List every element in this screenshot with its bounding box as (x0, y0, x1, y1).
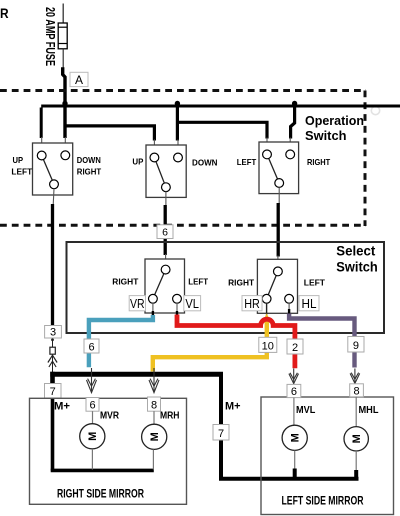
svg-text:MVR: MVR (100, 411, 120, 422)
wire motor MVR to bus (91, 449, 93, 470)
svg-text:VL: VL (185, 296, 199, 311)
wire terminal6 to motor MVR (92, 411, 94, 424)
wire yellow HR to MRH (net 10) (153, 317, 267, 372)
svg-text:7: 7 (50, 386, 56, 398)
down arrow into left 8 (350, 369, 360, 384)
svg-text:9: 9 (353, 340, 359, 352)
svg-text:LEFT: LEFT (11, 167, 32, 177)
label Select Switch (336, 242, 378, 274)
svg-text:LEFT: LEFT (188, 276, 208, 286)
svg-text:M: M (149, 432, 161, 441)
node 7 box right (45, 384, 62, 399)
wire SW1 bottom to connector 3 (52, 189, 55, 205)
node 2 box (287, 339, 303, 354)
switch SW1 (up/left - down/right) (33, 143, 73, 195)
svg-text:Switch: Switch (336, 258, 378, 274)
yellow arrow up into HR (262, 313, 271, 323)
wire terminal8 to motor MHL (355, 397, 357, 427)
node 3 box (45, 326, 62, 339)
svg-text:8: 8 (151, 399, 157, 411)
select switch SSW2 (horizontal motors) (257, 259, 297, 313)
select switch SSW1 (vertical motors) (145, 259, 185, 313)
svg-text:M: M (351, 434, 363, 443)
wire main vertical down to SW1 down-right contact (63, 106, 66, 138)
svg-text:3: 3 (50, 327, 56, 339)
node 6 box (operation to select) (157, 225, 173, 239)
svg-text:HL: HL (302, 296, 317, 311)
wire branch y=122 to SW3 left contact (177, 122, 267, 138)
junction dot bus x=177 (175, 101, 180, 106)
svg-text:6: 6 (291, 386, 297, 398)
terminal 6 box right (86, 398, 99, 412)
svg-text:DOWN: DOWN (192, 158, 218, 168)
switch SW3 (left - right) (259, 142, 299, 194)
wire SW3 bottom to select SW2 top (278, 187, 280, 204)
left side mirror box (261, 397, 394, 515)
svg-text:HR: HR (244, 296, 260, 311)
wire red VL to MVL (net 2) (177, 315, 295, 369)
switch SW2 (up - down) (146, 145, 186, 197)
wire M+ down inside right mirror (51, 397, 55, 471)
svg-text:6: 6 (88, 341, 94, 353)
wire SW2 bottom through node 6 to select SW top (165, 192, 167, 207)
pin label VL (184, 296, 201, 312)
svg-text:M: M (290, 433, 302, 442)
select switch box (67, 242, 385, 333)
node 7 box left (213, 425, 229, 441)
fuse F1 20 AMP body (58, 23, 67, 49)
wire bus left corner down to SW1 up-left contact (40, 108, 43, 139)
down arrow into right 8 (149, 368, 159, 393)
svg-text:RIGHT: RIGHT (77, 167, 101, 177)
label Operation Switch (305, 114, 364, 143)
svg-text:VR: VR (130, 296, 145, 311)
svg-text:Operation: Operation (305, 114, 364, 128)
operation switch dashed box top edge (0, 89, 366, 92)
svg-text:LEFT: LEFT (237, 157, 256, 167)
svg-text:M: M (87, 432, 99, 441)
svg-text:DOWN: DOWN (77, 155, 101, 165)
svg-text:8: 8 (353, 385, 359, 397)
wire purple HL to MHL (net 9) (289, 314, 354, 368)
svg-text:MHL: MHL (359, 405, 379, 416)
svg-text:A: A (75, 73, 83, 87)
operation switch dashed box right edge (364, 91, 367, 227)
motor MHL (344, 427, 368, 451)
svg-text:MRH: MRH (160, 411, 180, 422)
down arrow into right 6 (87, 368, 97, 393)
node 6 box (teal) (84, 339, 99, 353)
connector symbol below node 3 (48, 338, 57, 372)
motor MVL (282, 425, 307, 450)
terminal 6 box left (287, 384, 301, 398)
svg-text:7: 7 (218, 428, 224, 440)
down arrow into left 6 (289, 369, 299, 384)
svg-text:M+: M+ (54, 400, 70, 412)
wire stub VR contact (152, 303, 154, 312)
wire M+ bus right mirror and to left mirror (50, 372, 55, 384)
svg-text:LEFT SIDE MIRROR: LEFT SIDE MIRROR (282, 493, 364, 507)
svg-text:10: 10 (262, 340, 274, 352)
svg-text:6: 6 (89, 400, 95, 412)
right side mirror box (30, 398, 187, 504)
wire bus drop x=177 to SW2 down contact (176, 106, 179, 141)
svg-text:6: 6 (162, 227, 168, 239)
pin label HL (299, 296, 319, 312)
svg-text:RIGHT: RIGHT (307, 157, 330, 167)
terminal 8 box left (350, 384, 364, 398)
junction dot at fuse/bus (62, 101, 67, 106)
svg-text:RIGHT: RIGHT (112, 276, 138, 286)
wire terminal6 to motor MVL (293, 398, 295, 426)
wire branch y=126 to SW2 up contact (65, 126, 154, 141)
svg-text:MVL: MVL (296, 405, 315, 416)
wire terminal8 to motor MRH (153, 411, 155, 424)
pin label VR (129, 296, 145, 312)
wire motor MVL to bus (294, 451, 296, 471)
wire stub HL contact (288, 303, 290, 310)
junction dot bus x=294 (292, 101, 297, 106)
wire stub VL contact (176, 303, 178, 312)
wire main bus (horizontal, to right edge) (41, 105, 400, 108)
svg-text:RIGHT: RIGHT (228, 278, 254, 288)
wire motor MHL to bus (355, 451, 357, 471)
wire teal VR to MVR (net 6) (89, 315, 153, 367)
pin label HR (242, 296, 262, 312)
svg-text:20 AMP FUSE: 20 AMP FUSE (43, 7, 58, 66)
node 10 box (259, 337, 277, 352)
motor MRH (142, 424, 167, 449)
wire bus drop x=294 to SW3 right contact (291, 106, 295, 139)
operation switch dashed box bottom edge (0, 224, 366, 227)
svg-text:UP: UP (13, 155, 24, 165)
svg-text:Select: Select (336, 242, 375, 258)
svg-text:RIGHT SIDE MIRROR: RIGHT SIDE MIRROR (57, 486, 144, 500)
motor MVR (80, 424, 105, 449)
node 9 box (348, 337, 364, 353)
node A connector box (70, 72, 88, 87)
svg-text:2: 2 (292, 342, 298, 354)
wire motor MRH to bus (152, 450, 154, 470)
wire fuse feed top (thin) (62, 4, 64, 24)
wire battery feed to bus (thick, jogged) (63, 67, 65, 107)
wire fuse bottom lead (thin) (62, 49, 64, 68)
svg-text:M+: M+ (225, 400, 241, 412)
svg-text:Switch: Switch (305, 129, 347, 143)
terminal 8 box right (148, 397, 161, 411)
wire stub HR contact (266, 303, 268, 318)
svg-text:UP: UP (132, 156, 143, 166)
svg-text:LEFT: LEFT (304, 278, 325, 288)
svg-text:R: R (0, 5, 9, 21)
